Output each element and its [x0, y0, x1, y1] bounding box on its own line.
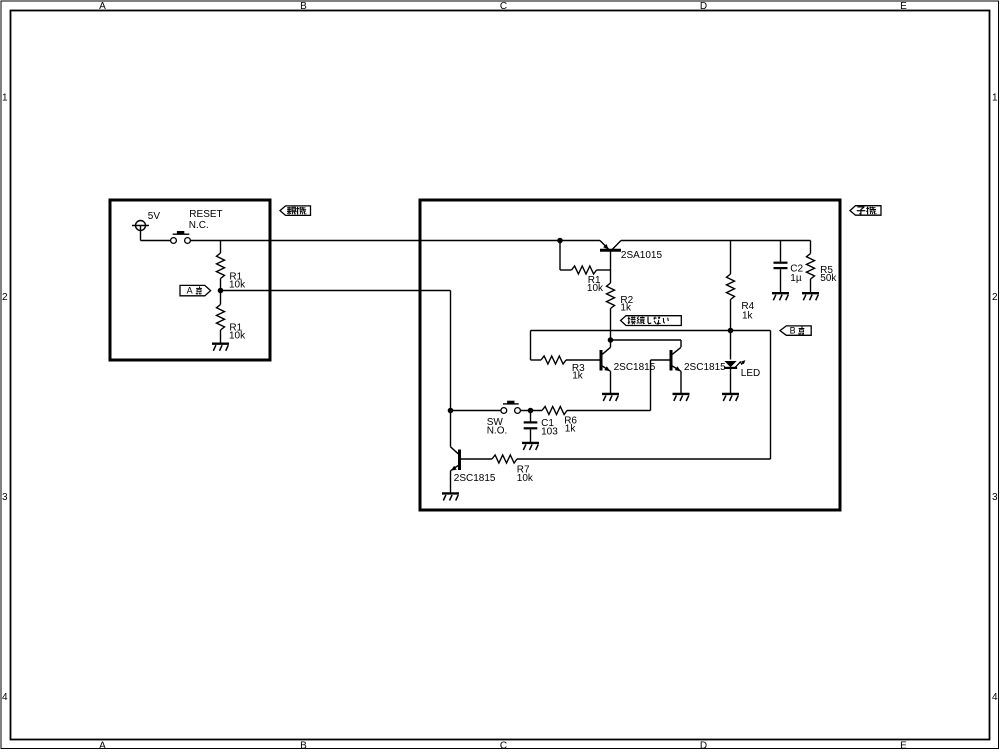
ground (LED cathode)	[722, 393, 739, 395]
wire to switch SW	[451, 410, 501, 412]
wire net B down right side	[770, 331, 772, 460]
ground (C1)	[522, 442, 539, 444]
resistor R1 10k (base bias)	[572, 266, 597, 274]
node A junction	[218, 288, 224, 294]
resistor R2 1k	[607, 283, 615, 309]
svg-text:1k: 1k	[572, 371, 584, 382]
wire R1 to base of Q1	[597, 269, 611, 271]
resistor R3 1k	[541, 356, 566, 364]
ground (Q3 emitter)	[673, 393, 690, 395]
flag label 親機	[280, 206, 311, 216]
wire node A into child unit down to SW	[450, 291, 452, 447]
svg-text:E: E	[900, 1, 907, 12]
svg-text:A: A	[99, 1, 106, 12]
resistor R4 1k	[730, 241, 732, 275]
svg-text:N.C.: N.C.	[189, 220, 209, 231]
ground (Q2 emitter)	[602, 393, 619, 395]
ground (left box)	[212, 343, 229, 345]
wire node A to child unit	[221, 290, 451, 292]
net B wire	[531, 330, 771, 332]
wire switch to 2SA1015 emitter (5V rail)	[190, 240, 600, 242]
capacitor C2 1u	[780, 241, 782, 262]
svg-text:3: 3	[2, 492, 8, 503]
svg-text:50k: 50k	[820, 273, 837, 284]
wire R7 to net B right riser	[517, 458, 771, 460]
junction on 5V rail at R1 branch	[557, 238, 563, 244]
svg-text:10k: 10k	[587, 283, 604, 294]
wire net B to R3	[530, 331, 532, 361]
wire R1 to node A	[220, 279, 222, 305]
resistor R7 10k	[492, 455, 517, 463]
svg-text:1k: 1k	[742, 310, 754, 321]
svg-text:103: 103	[541, 427, 558, 438]
flag label A点	[180, 285, 211, 295]
ground (R5)	[802, 292, 819, 294]
svg-text:RESET: RESET	[189, 209, 222, 220]
box 子機 (child unit) outline	[420, 200, 840, 510]
svg-text:2SA1015: 2SA1015	[621, 250, 663, 261]
svg-text:5V: 5V	[148, 211, 161, 222]
wire 5V to switch	[141, 240, 171, 242]
wire rail to R1 divider	[220, 241, 222, 254]
svg-text:4: 4	[992, 692, 998, 703]
transistor Q1 2SA1015 PNP	[600, 249, 621, 252]
svg-text:2: 2	[992, 292, 998, 303]
LED D1	[724, 361, 736, 367]
transistor Q4 2SC1815 NPN (mirrored)	[458, 450, 461, 471]
svg-text:LED: LED	[741, 368, 760, 379]
svg-text:2SC1815: 2SC1815	[614, 362, 656, 373]
wire Q1 collector to C2/R5 rail	[621, 240, 811, 242]
svg-text:N.O.: N.O.	[487, 426, 508, 437]
svg-text:10k: 10k	[229, 280, 246, 291]
pushbutton switch RESET N.C.	[173, 233, 190, 235]
flag label 接続しない (do not connect)	[621, 316, 682, 326]
svg-text:D: D	[700, 741, 707, 751]
svg-text:C: C	[500, 741, 507, 751]
svg-text:A: A	[99, 741, 106, 751]
wire switch to C1 junction	[520, 410, 542, 412]
LED light squiggle arrow	[735, 362, 743, 368]
pushbutton switch SW N.O.	[503, 403, 519, 405]
svg-text:1: 1	[992, 92, 998, 103]
power symbol 5V	[136, 221, 146, 231]
svg-text:4: 4	[2, 692, 8, 703]
svg-text:1: 1	[2, 92, 8, 103]
wire rail junction down to R1	[559, 241, 561, 271]
svg-text:B: B	[790, 325, 796, 335]
svg-text:C: C	[500, 1, 507, 12]
wire R1 to ground	[220, 330, 222, 344]
svg-text:10k: 10k	[229, 331, 246, 342]
junction net B with R4/LED	[728, 328, 734, 334]
resistor R5 50k	[810, 241, 812, 254]
svg-text:10k: 10k	[517, 473, 534, 484]
flag label B点	[780, 326, 811, 335]
resistor R6 1k	[542, 407, 567, 415]
box 親機 (parent unit) outline	[110, 200, 270, 360]
svg-text:A: A	[187, 286, 193, 296]
svg-text:2SC1815: 2SC1815	[454, 473, 496, 484]
svg-text:2: 2	[2, 292, 8, 303]
resistor R1 (lower divider)	[217, 305, 225, 331]
ground (Q4 emitter)	[442, 492, 459, 494]
junction SW node	[448, 408, 454, 414]
svg-text:2SC1815: 2SC1815	[684, 362, 726, 373]
wire Q4 base to R7	[461, 458, 492, 460]
wire R6 to Q3 base riser	[567, 410, 651, 412]
wire Q3 base down to R6	[651, 359, 670, 361]
ground (C2)	[772, 292, 789, 294]
resistor R1 (upper divider)	[217, 253, 225, 279]
svg-text:B: B	[300, 741, 307, 751]
transistor Q2 2SC1815 NPN	[600, 350, 603, 371]
wire R3 to Q2 base	[566, 359, 600, 361]
svg-text:3: 3	[992, 492, 998, 503]
junction C1 node	[528, 408, 534, 414]
svg-text:D: D	[700, 1, 707, 12]
capacitor C1 103	[530, 411, 532, 422]
flag label 子機	[850, 206, 881, 216]
wire R2 down across B-net to junction	[610, 309, 612, 341]
svg-text:B: B	[300, 1, 307, 12]
wire collector bus to Q3	[611, 339, 682, 341]
svg-text:1k: 1k	[620, 303, 632, 314]
svg-text:E: E	[900, 741, 907, 751]
transistor Q3 2SC1815 NPN	[670, 350, 673, 371]
svg-text:1k: 1k	[565, 423, 577, 434]
svg-text:1µ: 1µ	[790, 273, 802, 284]
junction Q2/Q3 collectors with R2	[608, 337, 614, 343]
